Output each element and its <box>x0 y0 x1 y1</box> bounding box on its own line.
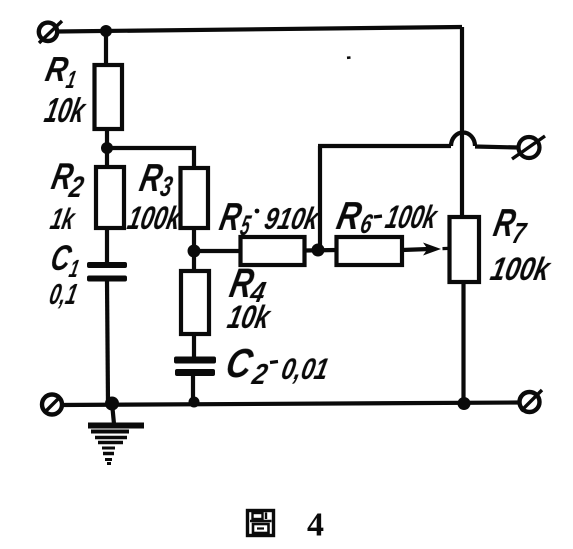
node junction R7/bottom <box>458 397 471 410</box>
svg-text:100k: 100k <box>487 251 554 288</box>
wire crossover hop <box>451 133 475 147</box>
caption figure glyph <box>248 511 274 536</box>
svg-text:4: 4 <box>307 507 324 544</box>
ground symbol <box>88 403 144 464</box>
terminal input top-left <box>39 21 62 43</box>
wire hop to output terminal <box>475 147 518 148</box>
svg-text:0,01: 0,01 <box>279 353 332 386</box>
terminal bottom-right <box>520 390 543 412</box>
label C2 separator dash <box>270 362 278 363</box>
label R2 value 1k <box>48 203 79 236</box>
wire right rail vertical <box>460 27 464 217</box>
capacitor C2 <box>174 357 216 377</box>
wire R3 to junction <box>192 228 196 251</box>
label R1 <box>42 51 78 94</box>
wire C1 to ground rail <box>107 281 108 404</box>
label R7 <box>490 201 530 250</box>
label C2 <box>222 339 270 391</box>
resistor R5 <box>241 237 305 265</box>
resistor R6 <box>337 237 403 265</box>
label R5 value 910k <box>262 201 324 236</box>
label R5 <box>216 195 254 241</box>
terminal bottom-left <box>42 395 62 415</box>
label R6 <box>333 194 376 239</box>
label R3 <box>136 156 176 202</box>
label R3 value 100k <box>124 200 185 237</box>
label R4 <box>226 259 268 309</box>
label C2 value 0,01 <box>279 353 332 386</box>
label R6 separator dash <box>374 216 382 217</box>
node junction ground <box>105 397 119 411</box>
wire R5 to node <box>304 248 337 253</box>
wire top junction to R1 <box>104 31 108 66</box>
label R5 separator dot <box>255 209 260 214</box>
label R7 value 100k <box>487 251 554 288</box>
wire C2 to ground rail <box>191 376 195 403</box>
label R2 <box>48 155 86 204</box>
resistor R4 <box>181 271 209 334</box>
node junction R1/R2/R3 <box>101 142 113 154</box>
label R4 value 10k <box>224 299 274 336</box>
wire junction to R5 <box>194 249 241 253</box>
stray speck <box>347 56 351 59</box>
resistor R3 <box>181 168 209 228</box>
resistor R1 <box>95 65 123 129</box>
svg-text:100k: 100k <box>382 199 441 236</box>
terminal output mid-right <box>512 136 545 159</box>
label C1 value 0,1 <box>47 278 81 311</box>
label R6 value 100k <box>382 199 441 236</box>
wire R1 to R2 <box>105 129 109 167</box>
node junction C2/bottom <box>189 397 200 408</box>
wire top rail <box>57 27 462 32</box>
wiper arrow into R7 <box>423 243 441 256</box>
wire R4 stub from junction <box>192 251 196 271</box>
capacitor C1 <box>87 262 127 282</box>
wire feedback horizontal to crossover <box>318 144 451 148</box>
node junction R5/R6/feedback <box>312 244 325 257</box>
svg-text:100k: 100k <box>124 200 185 237</box>
wire R6 wiper arm <box>402 249 429 250</box>
label C1 <box>47 239 81 283</box>
wire R7 to ground rail <box>461 282 465 404</box>
resistor R7 <box>450 217 480 282</box>
wire feedback vertical <box>318 146 322 250</box>
resistor R2 <box>96 167 124 228</box>
wire R4 to C2 <box>192 334 196 357</box>
svg-text:910k: 910k <box>262 201 324 236</box>
wire R2 to C1 <box>105 228 109 263</box>
label R1 value 10k <box>41 92 89 130</box>
node junction top (R1 top / input) <box>100 25 112 37</box>
node junction R3/R4/R5 <box>188 245 201 258</box>
wire bottom rail <box>58 403 519 406</box>
wire junction to R3 top <box>107 148 194 168</box>
